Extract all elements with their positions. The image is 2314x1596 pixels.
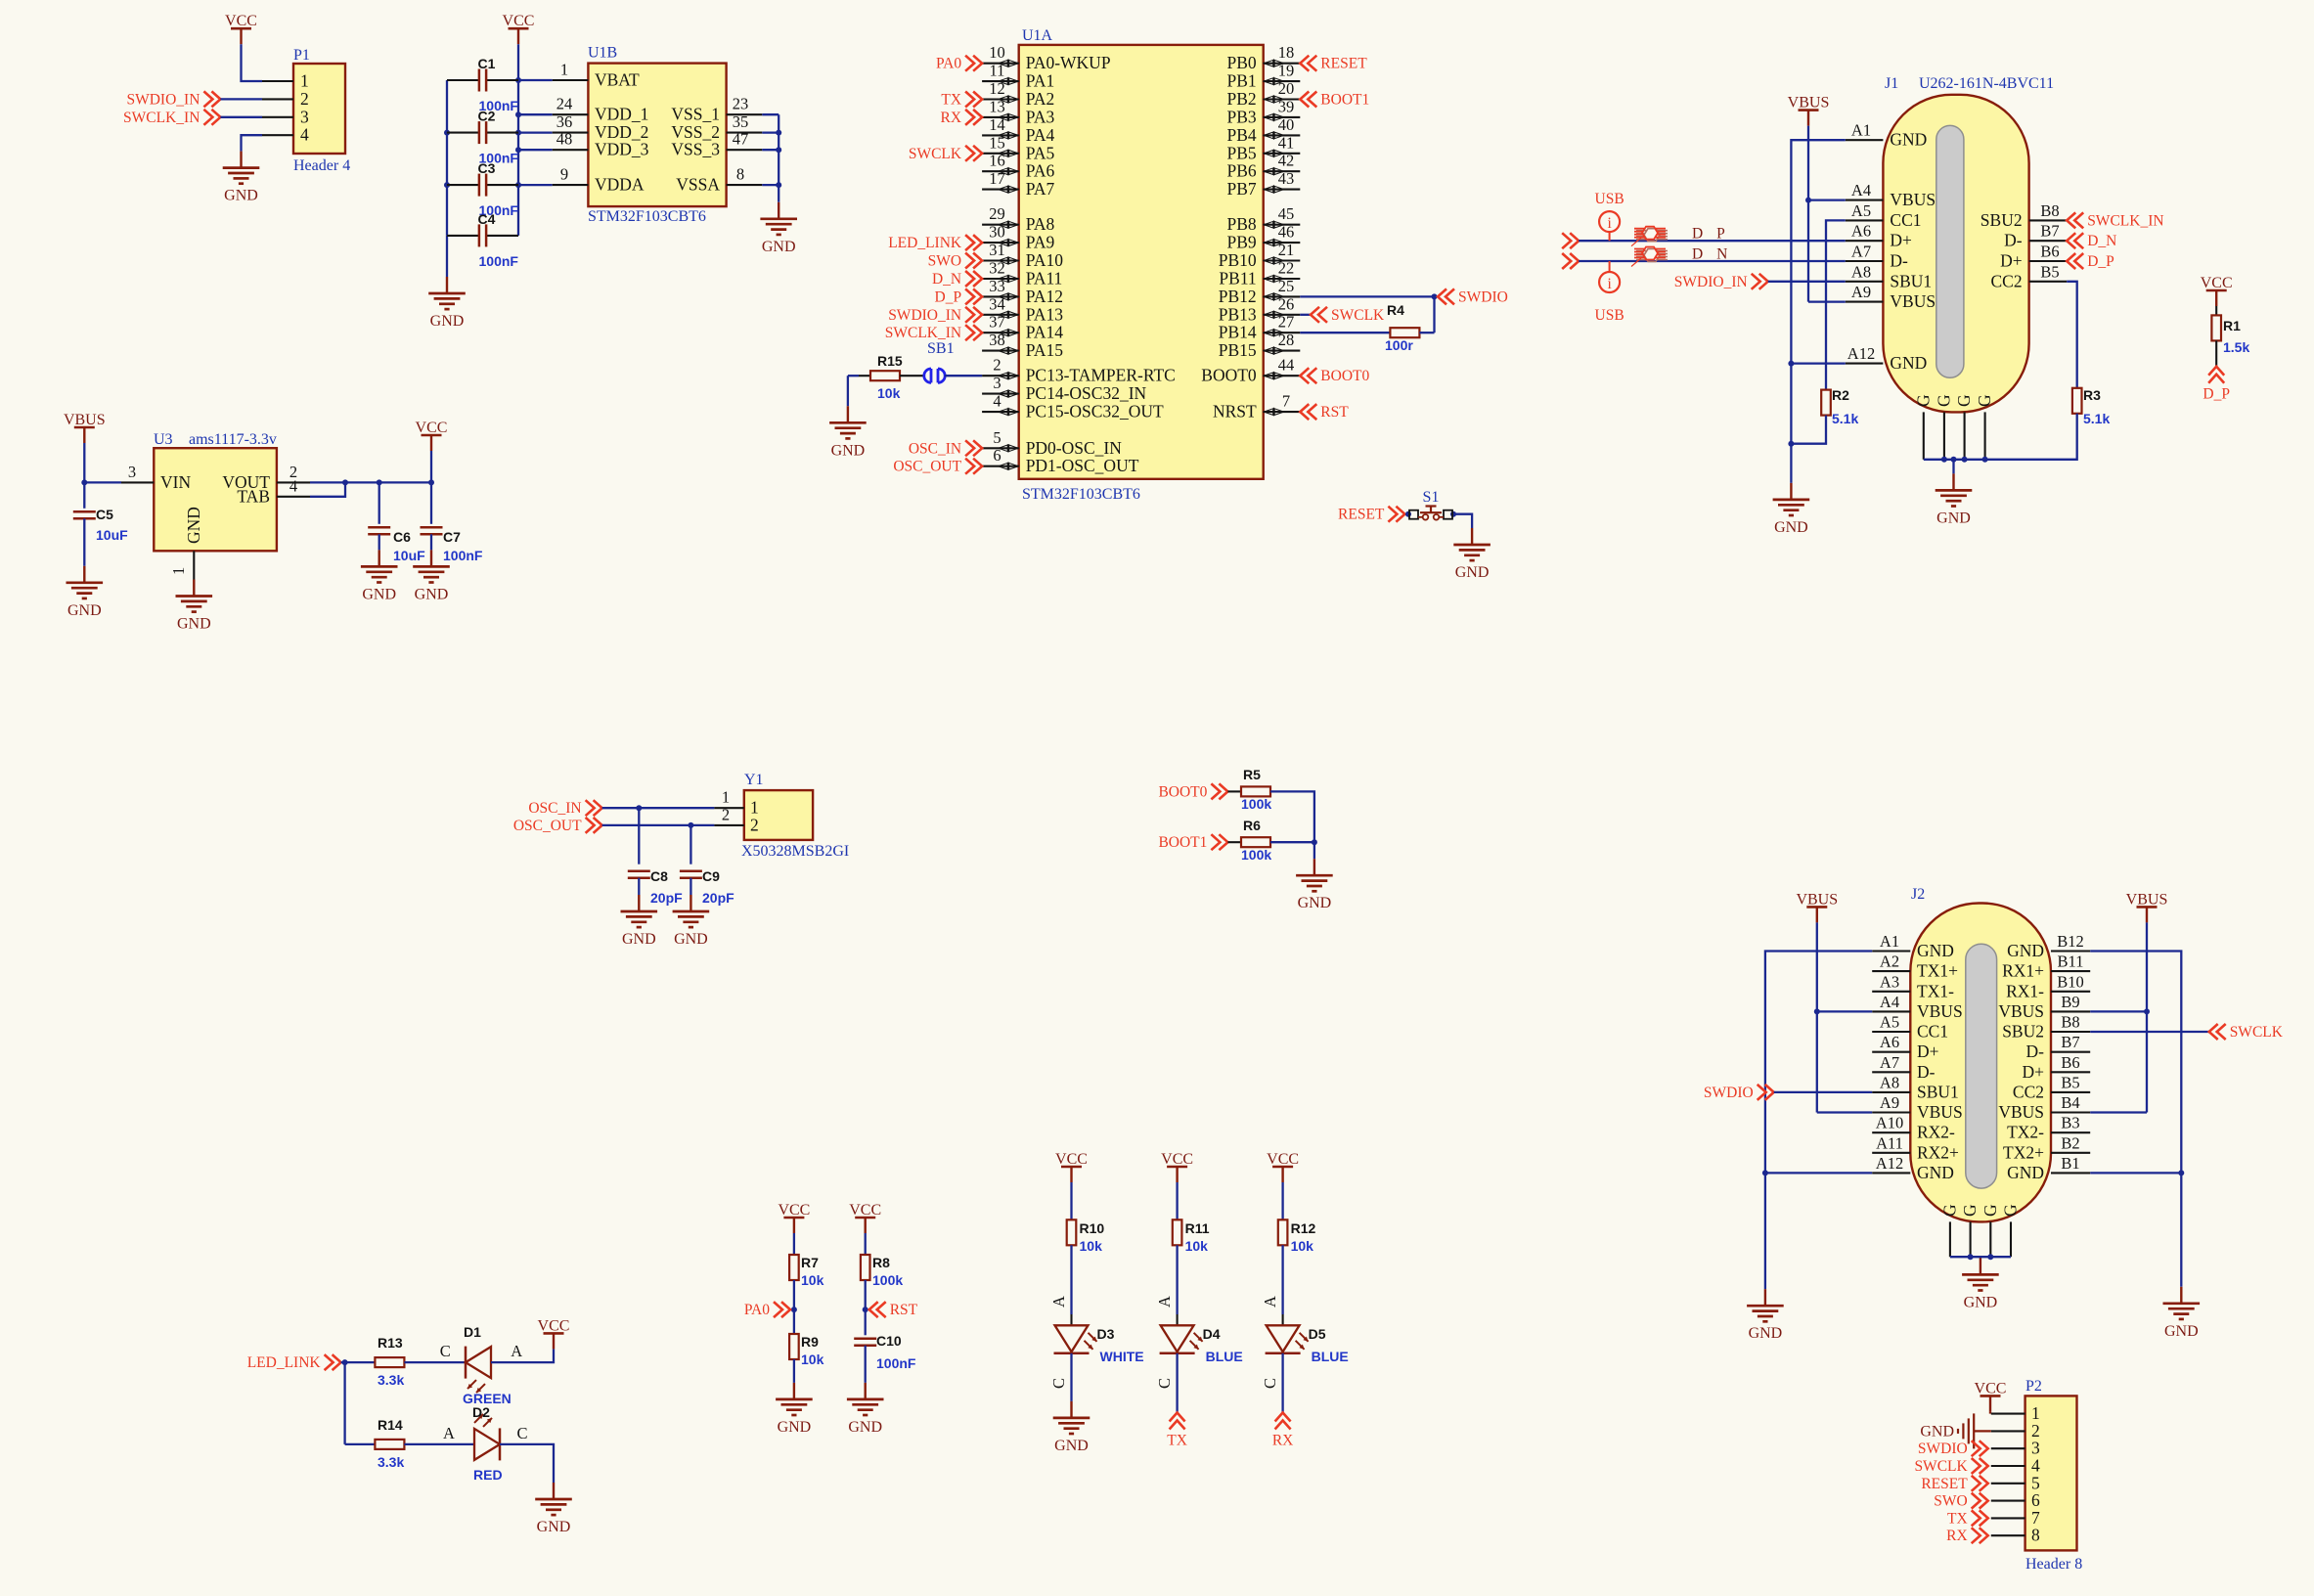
svg-text:B3: B3 xyxy=(2061,1114,2079,1132)
svg-text:G: G xyxy=(2001,1204,2021,1217)
svg-text:C6: C6 xyxy=(393,529,411,545)
wire C7 to GND xyxy=(430,534,432,550)
wire C9 to GND xyxy=(690,878,691,895)
wire VCC to R11 xyxy=(1176,1182,1178,1219)
svg-text:GND: GND xyxy=(1455,564,1490,581)
svg-text:PA14: PA14 xyxy=(1026,323,1064,342)
wire R15 to SB1 xyxy=(900,375,924,377)
svg-text:GND: GND xyxy=(537,1519,571,1535)
wire VCC to R8 xyxy=(865,1233,867,1255)
junction GND/R2 xyxy=(1788,441,1794,447)
svg-text:2: 2 xyxy=(993,356,1001,375)
svg-text:PA5: PA5 xyxy=(1026,143,1055,162)
net flag SWCLK (PB13) xyxy=(1311,307,1385,324)
capacitor C7 xyxy=(421,482,462,545)
wire VBUS to B4 (J2) xyxy=(2090,1111,2147,1113)
svg-text:CC2: CC2 xyxy=(1990,271,2022,290)
svg-text:37: 37 xyxy=(989,313,1005,332)
net flag SWCLK (P2 pin4) xyxy=(1914,1458,1987,1475)
wire C10 to GND xyxy=(865,1346,867,1383)
svg-text:100nF: 100nF xyxy=(876,1355,916,1371)
svg-text:3: 3 xyxy=(993,374,1001,392)
wire D_P to J1 A6 xyxy=(1579,240,1846,242)
svg-text:A2: A2 xyxy=(1880,953,1899,971)
connector J1 U262-161N-4BVC11 xyxy=(1846,75,2067,460)
svg-text:29: 29 xyxy=(989,204,1005,223)
wire VDDA xyxy=(518,184,553,186)
svg-text:PA15: PA15 xyxy=(1026,340,1064,360)
svg-text:R1: R1 xyxy=(2223,318,2241,333)
svg-text:PD1-OSC_OUT: PD1-OSC_OUT xyxy=(1026,456,1139,475)
power flag VBUS (U3) xyxy=(64,412,106,443)
svg-text:D-: D- xyxy=(2004,231,2023,250)
svg-text:SWDIO_IN: SWDIO_IN xyxy=(1674,274,1748,290)
net flag SWCLK_IN (P1 pin3) xyxy=(123,110,220,126)
svg-text:RESET: RESET xyxy=(1320,56,1367,72)
svg-text:D+: D+ xyxy=(1890,231,1912,250)
junction GND/B1 (J2) xyxy=(2178,1170,2184,1175)
svg-text:BOOT1: BOOT1 xyxy=(1320,92,1369,109)
junction SWDIO node xyxy=(1432,293,1438,299)
svg-text:PC15-OSC32_OUT: PC15-OSC32_OUT xyxy=(1026,402,1164,421)
net flag D_N wire start xyxy=(1562,253,1579,269)
resistor R1 xyxy=(2211,315,2241,340)
svg-text:PB15: PB15 xyxy=(1219,340,1257,360)
junction VCC/VBAT xyxy=(515,77,521,83)
power flag VCC (P2) xyxy=(1975,1380,2007,1411)
net flag SWO (P2 pin6) xyxy=(1934,1493,1987,1510)
wire R8 to C10 xyxy=(865,1280,867,1335)
net flag OSC_OUT (PD1) xyxy=(893,459,982,475)
wire OSC_OUT to Y1 pin2 xyxy=(602,824,715,826)
wire R3 to G bus xyxy=(1924,414,2077,460)
svg-text:38: 38 xyxy=(989,331,1005,349)
net flag SWCLK (J2 B8) xyxy=(2209,1024,2284,1041)
svg-text:VCC: VCC xyxy=(1975,1380,2007,1396)
svg-text:BOOT0: BOOT0 xyxy=(1158,783,1207,800)
junction VSS_2 xyxy=(776,130,781,136)
svg-text:R6: R6 xyxy=(1243,818,1261,833)
junction VSSA xyxy=(776,182,781,188)
net flag RX (PA3) xyxy=(941,110,983,126)
svg-text:A: A xyxy=(1261,1296,1279,1308)
svg-text:SWDIO: SWDIO xyxy=(1704,1085,1754,1101)
junction VCC/VDDA xyxy=(515,182,521,188)
net flag SWCLK_IN (J1 B8) xyxy=(2067,212,2163,229)
wire BOOT0 to R5 xyxy=(1227,790,1241,792)
svg-text:B1: B1 xyxy=(2061,1154,2079,1173)
svg-text:41: 41 xyxy=(1278,133,1295,152)
svg-text:SWCLK_IN: SWCLK_IN xyxy=(885,325,961,341)
svg-text:VCC: VCC xyxy=(503,13,535,29)
net flag D_N (PA11) xyxy=(932,271,982,288)
svg-text:2: 2 xyxy=(722,805,730,823)
svg-text:GND: GND xyxy=(415,586,449,602)
svg-text:Y1: Y1 xyxy=(744,772,764,788)
svg-text:C3: C3 xyxy=(478,160,496,176)
svg-text:VCC: VCC xyxy=(538,1317,570,1334)
svg-text:USB: USB xyxy=(1595,307,1624,324)
svg-text:28: 28 xyxy=(1278,331,1295,349)
svg-text:100r: 100r xyxy=(1385,337,1413,353)
svg-text:GND: GND xyxy=(362,586,396,602)
svg-text:D N: D N xyxy=(1692,246,1732,263)
svg-text:TX2-: TX2- xyxy=(2007,1123,2044,1142)
wire VOUT to VCC xyxy=(310,481,431,483)
U1A left pins with numbers xyxy=(982,43,1176,475)
svg-text:3.3k: 3.3k xyxy=(378,1454,404,1470)
net flag OSC_IN (PD0) xyxy=(909,440,982,457)
svg-text:R8: R8 xyxy=(872,1255,890,1270)
svg-text:CC1: CC1 xyxy=(1890,210,1921,230)
svg-text:D-: D- xyxy=(1890,251,1908,271)
svg-text:1: 1 xyxy=(560,61,568,79)
svg-text:27: 27 xyxy=(1278,313,1295,332)
svg-text:SWO: SWO xyxy=(1934,1493,1967,1510)
svg-text:OSC_OUT: OSC_OUT xyxy=(513,818,582,834)
svg-text:12: 12 xyxy=(989,79,1005,98)
svg-text:SBU1: SBU1 xyxy=(1917,1082,1959,1101)
svg-text:A9: A9 xyxy=(1851,283,1871,301)
net flag TX (PA2) xyxy=(941,92,982,109)
svg-text:14: 14 xyxy=(989,115,1005,134)
svg-text:A11: A11 xyxy=(1876,1133,1903,1152)
svg-text:20: 20 xyxy=(1278,79,1295,98)
capacitor C6 xyxy=(368,482,411,545)
svg-text:VBUS: VBUS xyxy=(1917,1001,1963,1021)
svg-text:BOOT1: BOOT1 xyxy=(1158,834,1207,851)
junction S1 right xyxy=(1450,511,1456,517)
svg-text:44: 44 xyxy=(1278,356,1295,375)
wire VBAT xyxy=(518,79,553,81)
wire GND bus (J2 right) xyxy=(2090,952,2181,1287)
svg-text:GND: GND xyxy=(848,1419,882,1436)
svg-text:C: C xyxy=(1261,1378,1279,1389)
svg-text:VDD_3: VDD_3 xyxy=(595,140,649,159)
svg-text:GND: GND xyxy=(177,616,211,633)
svg-text:13: 13 xyxy=(989,97,1005,115)
svg-text:GND: GND xyxy=(831,442,866,459)
power flag VBUS (J2 right) xyxy=(2126,891,2168,922)
svg-text:GND: GND xyxy=(1936,510,1971,526)
svg-text:TX: TX xyxy=(941,92,961,109)
svg-text:A4: A4 xyxy=(1880,993,1899,1011)
svg-text:B12: B12 xyxy=(2057,932,2084,951)
wire PB13 to SWCLK flag xyxy=(1300,314,1311,316)
net flag RST (NRST) xyxy=(1300,404,1349,421)
push button S1 xyxy=(1409,489,1452,520)
svg-text:VCC: VCC xyxy=(1267,1151,1299,1168)
wire VBUS to A9 (J2) xyxy=(1817,1111,1872,1113)
svg-text:PA9: PA9 xyxy=(1026,233,1055,252)
svg-text:10uF: 10uF xyxy=(393,548,425,563)
svg-text:VDDA: VDDA xyxy=(595,175,645,195)
svg-text:R10: R10 xyxy=(1080,1220,1105,1236)
differential pair mark (D_N) xyxy=(1631,247,1668,267)
net flag SWDIO (PB12) xyxy=(1438,288,1508,305)
wire R9 to GND xyxy=(793,1359,795,1383)
svg-text:100k: 100k xyxy=(1241,796,1271,812)
power flag VCC (R8) xyxy=(849,1202,881,1233)
wire R13 to D1 xyxy=(404,1361,466,1363)
junction VOUT/C7 xyxy=(428,479,434,485)
svg-text:B9: B9 xyxy=(2061,993,2079,1011)
net flag TX (P2 pin7) xyxy=(1947,1510,1988,1527)
resistor R3 xyxy=(2072,387,2101,414)
svg-text:LED_LINK: LED_LINK xyxy=(888,235,962,251)
differential pair mark (D_P) xyxy=(1631,227,1668,246)
svg-text:VBUS: VBUS xyxy=(2126,891,2168,908)
svg-text:18: 18 xyxy=(1278,43,1295,62)
svg-text:PB9: PB9 xyxy=(1227,233,1257,252)
svg-text:34: 34 xyxy=(989,294,1005,313)
svg-text:10k: 10k xyxy=(1185,1238,1209,1254)
svg-text:OSC_OUT: OSC_OUT xyxy=(893,459,961,475)
resistor R15 xyxy=(859,353,903,380)
svg-text:TAB: TAB xyxy=(237,486,270,506)
net flag OSC_OUT (Y1) xyxy=(513,818,602,834)
wire VBUS to B9 (J2) xyxy=(2090,1010,2147,1012)
svg-text:VCC: VCC xyxy=(225,13,257,29)
svg-text:PB12: PB12 xyxy=(1219,287,1257,306)
svg-text:P1: P1 xyxy=(293,47,310,64)
svg-text:R14: R14 xyxy=(378,1417,403,1433)
svg-text:J1: J1 xyxy=(1885,75,1898,92)
svg-text:G: G xyxy=(1980,1204,2000,1217)
junction OSC_IN/C8 xyxy=(636,805,642,811)
wire GND stem (R5/R6) xyxy=(1313,842,1315,859)
wire C5 to GND xyxy=(83,518,85,566)
LED D1 xyxy=(464,1324,491,1393)
wire SWDIO_IN to P1 pin 2 xyxy=(220,98,262,100)
svg-text:PA12: PA12 xyxy=(1026,287,1063,306)
svg-text:PA2: PA2 xyxy=(1026,89,1055,109)
wire D3 to GND xyxy=(1070,1353,1072,1401)
regulator U3 ams1117-3.3v xyxy=(121,431,310,580)
resistor R10 xyxy=(1067,1219,1105,1245)
wire R7 to R9 xyxy=(793,1280,795,1334)
svg-text:46: 46 xyxy=(1278,223,1295,242)
svg-text:U262-161N-4BVC11: U262-161N-4BVC11 xyxy=(1919,75,2054,92)
svg-text:RESET: RESET xyxy=(1921,1476,1968,1492)
net flag SWDIO_IN (PA13) xyxy=(888,307,982,324)
svg-text:PA10: PA10 xyxy=(1026,250,1064,270)
connector P1 Header 4 xyxy=(262,47,350,174)
svg-text:X50328MSB2GI: X50328MSB2GI xyxy=(741,843,849,860)
svg-text:A8: A8 xyxy=(1851,262,1871,281)
ground (C7) xyxy=(413,550,450,602)
svg-text:J2: J2 xyxy=(1911,886,1925,903)
svg-text:SWCLK_IN: SWCLK_IN xyxy=(2087,212,2163,229)
svg-text:i: i xyxy=(1607,215,1612,232)
svg-text:B7: B7 xyxy=(2040,222,2059,241)
svg-text:R3: R3 xyxy=(2083,387,2101,403)
power flag VCC (R1) xyxy=(2201,275,2233,306)
junction G4 (J1) xyxy=(1982,457,1988,463)
svg-text:B6: B6 xyxy=(2040,243,2059,261)
net flag D_P (R1) xyxy=(2203,367,2230,403)
svg-text:PA0: PA0 xyxy=(936,56,961,72)
svg-text:10k: 10k xyxy=(1291,1238,1314,1254)
svg-text:3: 3 xyxy=(128,463,136,481)
power flag VCC (U3 out) xyxy=(416,420,448,451)
svg-text:31: 31 xyxy=(989,241,1005,259)
svg-text:PA4: PA4 xyxy=(1026,125,1055,145)
svg-text:WHITE: WHITE xyxy=(1100,1349,1144,1364)
svg-text:RED: RED xyxy=(473,1467,503,1483)
svg-text:25: 25 xyxy=(1278,277,1295,295)
svg-text:8: 8 xyxy=(2031,1526,2040,1545)
net flag RESET (S1) xyxy=(1338,507,1404,523)
wire GND bus (J1) xyxy=(1791,140,1845,483)
wire OSC_IN to Y1 pin1 xyxy=(602,807,715,809)
net flag LED_LINK (D1/D2) xyxy=(247,1354,341,1371)
svg-text:BLUE: BLUE xyxy=(1206,1349,1243,1364)
svg-text:D-: D- xyxy=(2026,1042,2045,1061)
svg-text:RX1+: RX1+ xyxy=(2002,961,2044,981)
junction cap bus C3 xyxy=(444,182,450,188)
svg-text:C8: C8 xyxy=(650,868,668,884)
junction cap bus C2 xyxy=(444,130,450,136)
svg-text:CC2: CC2 xyxy=(2013,1082,2044,1101)
svg-text:A: A xyxy=(511,1342,522,1360)
svg-text:A10: A10 xyxy=(1876,1114,1903,1132)
svg-text:VCC: VCC xyxy=(1161,1151,1193,1168)
wire G bus to GND (J2) xyxy=(1980,1257,1981,1258)
svg-text:VCC: VCC xyxy=(416,420,448,436)
wire R1 to D_P flag xyxy=(2215,340,2217,366)
svg-text:D1: D1 xyxy=(464,1324,481,1340)
svg-text:B2: B2 xyxy=(2061,1133,2079,1152)
svg-text:PC14-OSC32_IN: PC14-OSC32_IN xyxy=(1026,383,1147,403)
svg-text:B8: B8 xyxy=(2061,1013,2079,1032)
junction G3 (J1) xyxy=(1962,457,1968,463)
crystal Y1 X50328MSB2GI xyxy=(714,772,849,860)
net flag SWDIO (P2 pin3) xyxy=(1918,1441,1988,1457)
svg-text:GND: GND xyxy=(1920,1423,1954,1440)
svg-text:6: 6 xyxy=(993,446,1001,465)
ground (D3) xyxy=(1053,1401,1090,1454)
ground (D2) xyxy=(535,1483,572,1535)
wire SWDIO_IN to J1 A8 xyxy=(1768,281,1846,283)
svg-text:U1B: U1B xyxy=(588,45,617,62)
svg-text:3.3k: 3.3k xyxy=(378,1372,404,1388)
svg-text:PA7: PA7 xyxy=(1026,179,1055,199)
svg-text:26: 26 xyxy=(1278,294,1295,313)
ground (S1) xyxy=(1453,528,1491,581)
capacitor C4 xyxy=(447,211,518,247)
junction VCC/VDD_2 xyxy=(515,130,521,136)
svg-text:PA1: PA1 xyxy=(1026,71,1055,91)
svg-text:SBU2: SBU2 xyxy=(2002,1022,2044,1042)
wire PB14 to R4 xyxy=(1300,332,1390,333)
wire VBUS to VIN xyxy=(83,443,85,482)
net flag SWDIO_IN (P1 pin2) xyxy=(126,91,220,108)
svg-text:VSS_3: VSS_3 xyxy=(671,140,720,159)
junction RST node xyxy=(863,1307,868,1312)
svg-text:2: 2 xyxy=(750,815,759,834)
svg-text:PC13-TAMPER-RTC: PC13-TAMPER-RTC xyxy=(1026,366,1176,385)
svg-text:D4: D4 xyxy=(1203,1326,1221,1342)
wire D4 to TX xyxy=(1176,1353,1178,1413)
svg-text:GND: GND xyxy=(1054,1438,1089,1454)
wire VDD_3 xyxy=(518,149,553,151)
U1A right pins with numbers xyxy=(1201,43,1300,421)
svg-text:BOOT0: BOOT0 xyxy=(1320,368,1369,384)
svg-text:C: C xyxy=(1155,1378,1174,1389)
wire VBUS to A4 (J2) xyxy=(1817,1010,1872,1012)
wire C6 to GND xyxy=(378,534,380,550)
svg-text:4: 4 xyxy=(300,125,309,145)
resistor R2 xyxy=(1821,387,1849,416)
svg-text:1: 1 xyxy=(300,71,309,91)
junction VBUS/A4 xyxy=(1805,198,1811,203)
net flag PA0 (divider) xyxy=(744,1302,790,1318)
junction VCC/VDD_1 xyxy=(515,111,521,117)
svg-text:2: 2 xyxy=(300,89,309,109)
wire D2 to GND xyxy=(500,1444,554,1483)
wire R15 left xyxy=(848,375,859,377)
svg-text:USB: USB xyxy=(1595,191,1624,207)
wire VCC to R1 xyxy=(2215,306,2217,315)
wire VBUS bus (J1) xyxy=(1807,126,1809,302)
net flag RESET (P2 pin5) xyxy=(1921,1476,1987,1492)
svg-text:RX: RX xyxy=(1272,1433,1294,1449)
svg-text:A: A xyxy=(443,1424,455,1442)
svg-text:GND: GND xyxy=(1890,353,1927,373)
svg-text:48: 48 xyxy=(556,130,573,149)
svg-text:RX2+: RX2+ xyxy=(1917,1142,1959,1162)
svg-text:C: C xyxy=(1049,1378,1068,1389)
wire SWDIO to R4 xyxy=(1433,296,1435,332)
svg-text:A5: A5 xyxy=(1851,201,1871,220)
resistor R8 xyxy=(861,1255,890,1280)
capacitor C2 xyxy=(447,109,518,145)
svg-text:VBUS: VBUS xyxy=(1788,95,1830,111)
junction LED_LINK xyxy=(342,1359,348,1365)
svg-text:GND: GND xyxy=(1917,941,1954,960)
svg-text:PA13: PA13 xyxy=(1026,304,1064,324)
net flag SWCLK_IN (PA14) xyxy=(885,325,982,341)
svg-text:8: 8 xyxy=(736,165,744,184)
svg-text:G: G xyxy=(1975,394,1994,407)
ground (R15) xyxy=(829,406,867,459)
svg-text:20pF: 20pF xyxy=(702,890,734,906)
wire VCC to R7 xyxy=(793,1233,795,1255)
wire VCC to R10 xyxy=(1070,1182,1072,1219)
svg-text:RST: RST xyxy=(890,1302,918,1318)
svg-text:G: G xyxy=(1934,394,1953,407)
capacitor C8 xyxy=(628,808,668,884)
svg-text:D+: D+ xyxy=(1917,1042,1939,1061)
junction VBUS/B9 (J2) xyxy=(2144,1008,2150,1014)
wire cap bus to GND xyxy=(446,236,448,277)
svg-text:PB5: PB5 xyxy=(1227,143,1257,162)
ground (C6) xyxy=(361,550,398,602)
wire P1 pin 4 to GND xyxy=(242,135,263,151)
svg-text:OSC_IN: OSC_IN xyxy=(909,440,961,457)
svg-text:VCC: VCC xyxy=(849,1202,881,1219)
svg-text:36: 36 xyxy=(556,112,573,131)
resistor R12 xyxy=(1278,1219,1316,1245)
ground (J1 left) xyxy=(1773,483,1810,536)
wire TAB xyxy=(310,482,345,496)
svg-text:B8: B8 xyxy=(2040,201,2059,220)
svg-text:VBUS: VBUS xyxy=(1998,1102,2044,1122)
svg-text:5.1k: 5.1k xyxy=(2083,411,2110,426)
svg-text:17: 17 xyxy=(989,169,1005,188)
svg-text:A8: A8 xyxy=(1880,1073,1899,1091)
